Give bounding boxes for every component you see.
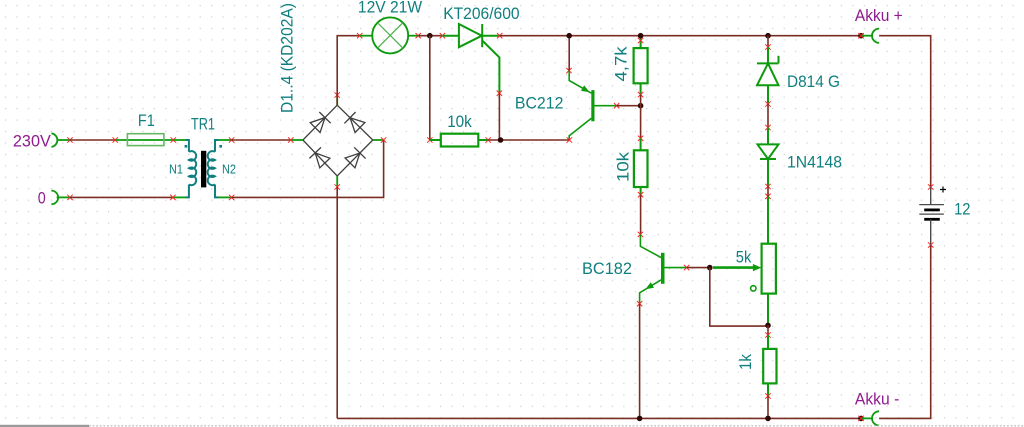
wire 4.7k to base junction: [640, 95, 642, 106]
svg-text:N1: N1: [169, 162, 183, 176]
frame bottom edge: [0, 425, 1024, 427]
wire battery to bus: [879, 245, 931, 418]
transformer TR1: [169, 115, 236, 201]
svg-text:D1..4 (KD202A): D1..4 (KD202A): [277, 3, 296, 113]
svg-text:10k: 10k: [447, 112, 472, 131]
wire pot junction to 1k: [767, 325, 769, 335]
wire base junction down: [640, 106, 642, 139]
transistor BC182 (NPN): [582, 232, 689, 307]
wire 10k to BC212 collector: [488, 139, 569, 141]
wire BC182 base: [687, 267, 710, 269]
svg-text:Akku -: Akku -: [855, 390, 899, 409]
svg-text:1N4148: 1N4148: [787, 152, 842, 171]
wire thyristor to BC212 junction: [500, 35, 861, 37]
svg-text:12: 12: [954, 200, 970, 219]
wire 1k to bus: [767, 396, 769, 418]
wire TR1 bottom to bridge right: [232, 140, 384, 197]
svg-text:10k: 10k: [614, 151, 633, 182]
svg-text:0: 0: [38, 189, 46, 208]
node BC182 base junction: [707, 265, 713, 271]
wire junction down to 10k: [429, 36, 431, 140]
battery 12: [919, 184, 970, 247]
wire TR1 to bridge left: [232, 139, 291, 141]
fuse F1: [113, 111, 177, 146]
node D814 top junction: [765, 33, 771, 39]
wire BC212 emitter up: [568, 36, 570, 71]
wire top to D814: [767, 36, 769, 47]
svg-text:F1: F1: [138, 111, 155, 130]
wire bottom bus: [337, 417, 861, 419]
node emitter junction: [566, 33, 572, 39]
node gate junction: [498, 137, 504, 143]
svg-text:D814 G: D814 G: [787, 72, 840, 91]
node lamp-10k junction: [427, 33, 433, 39]
zener diode D814 G: [757, 44, 840, 106]
thyristor KT206/600: [440, 4, 520, 96]
diode 1N4148: [758, 125, 843, 189]
svg-text:N2: N2: [222, 162, 236, 176]
transistor BC212 (PNP): [515, 68, 619, 143]
terminal Akku +: [855, 6, 903, 43]
svg-text:4,7k: 4,7k: [612, 46, 631, 82]
svg-text:BC182: BC182: [582, 259, 632, 278]
node pot bottom junction: [765, 323, 771, 329]
svg-text:BC212: BC212: [515, 93, 564, 112]
wire D814 to 1N4148: [767, 104, 769, 128]
wire 1N4148 to pot: [767, 187, 769, 197]
wire BC212 base: [617, 105, 641, 107]
wire BC182 emitter down: [639, 304, 641, 419]
terminal 0: [38, 189, 73, 208]
resistor 10k (gate): [427, 112, 491, 147]
wire gate down: [498, 93, 500, 140]
wire Akku+ to battery: [879, 36, 931, 187]
wire 10k to BC182 collector: [640, 195, 642, 235]
lamp 12V 21W: [357, 0, 422, 53]
svg-text:1k: 1k: [736, 354, 755, 370]
node 4.7k top junction: [638, 33, 644, 39]
wire wiper feedback: [710, 268, 768, 327]
node 1k bus junction: [765, 416, 771, 422]
bridge rectifier D1..4: [277, 3, 386, 190]
resistor 10k (divider): [614, 136, 648, 198]
terminal 230V: [13, 131, 73, 150]
wire bridge bottom to bus: [336, 187, 338, 418]
svg-text:Akku +: Akku +: [855, 6, 903, 25]
wire lamp to thyristor: [418, 35, 442, 37]
svg-text:230V: 230V: [13, 131, 52, 150]
svg-text:12V 21W: 12V 21W: [358, 0, 422, 16]
resistor 1k: [736, 332, 777, 398]
svg-text:5k: 5k: [736, 248, 752, 267]
svg-text:KT206/600: KT206/600: [443, 4, 519, 23]
node BC182 emitter bus junction: [637, 416, 643, 422]
wire bridge top to lamp: [337, 36, 360, 106]
wire 0 to TR1: [70, 196, 173, 198]
terminal Akku -: [855, 390, 899, 426]
wire 230V to F1: [70, 139, 115, 141]
node base junction: [638, 103, 644, 109]
potentiometer 5k: [713, 194, 776, 326]
svg-text:TR1: TR1: [191, 115, 215, 134]
resistor 4,7k: [612, 36, 648, 98]
